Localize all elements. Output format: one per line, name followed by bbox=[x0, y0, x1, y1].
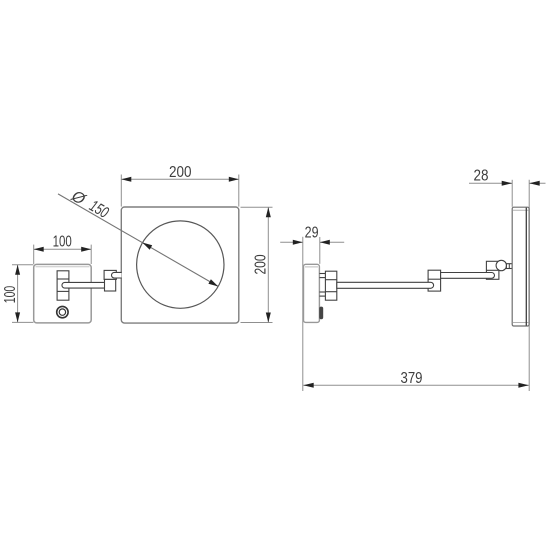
svg-text:200: 200 bbox=[252, 254, 269, 274]
svg-text:29: 29 bbox=[305, 225, 319, 242]
svg-text:28: 28 bbox=[474, 168, 489, 185]
svg-text:100: 100 bbox=[2, 286, 19, 304]
svg-text:200: 200 bbox=[169, 164, 192, 181]
svg-text:100: 100 bbox=[53, 234, 72, 251]
svg-text:379: 379 bbox=[401, 370, 423, 387]
